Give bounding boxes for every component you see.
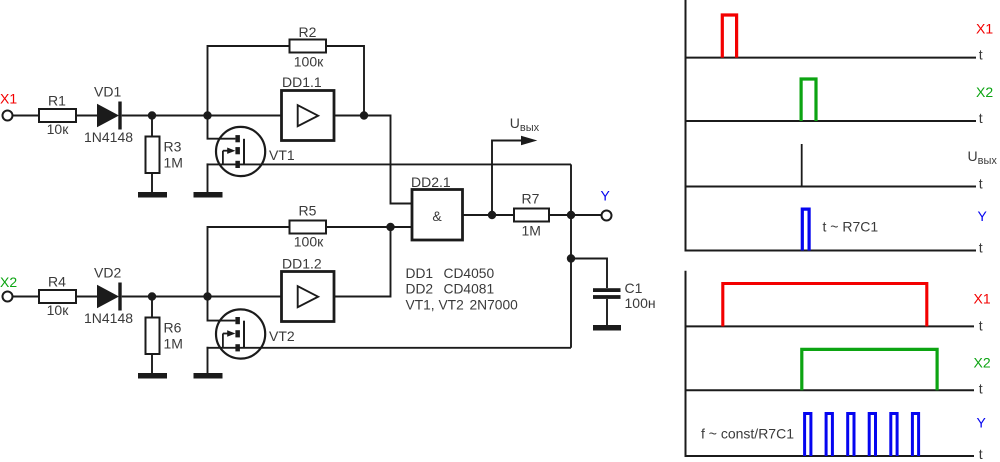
trace Y baseline bbox=[685, 250, 977, 252]
ground bbox=[194, 373, 223, 379]
svg-text:Y: Y bbox=[978, 208, 988, 224]
svg-text:Y: Y bbox=[977, 414, 987, 430]
trace X1 baseline (2) bbox=[685, 325, 975, 327]
svg-text:t ~ R7C1: t ~ R7C1 bbox=[823, 219, 879, 235]
wire (VT1 source to ground) bbox=[207, 163, 209, 192]
svg-text:100н: 100н bbox=[625, 295, 656, 311]
resistor R7 bbox=[514, 191, 549, 239]
svg-text:R7: R7 bbox=[522, 191, 540, 207]
wire bbox=[463, 214, 515, 216]
svg-text:X1: X1 bbox=[0, 90, 17, 106]
Uvyh spike bbox=[801, 144, 803, 187]
wire bbox=[13, 115, 40, 117]
ground bbox=[593, 325, 621, 331]
wire bbox=[334, 116, 412, 204]
svg-text:R1: R1 bbox=[48, 93, 66, 109]
X2 pulse (green, long) bbox=[802, 349, 937, 390]
svg-text:R3: R3 bbox=[164, 139, 182, 155]
trace X2 baseline (2) bbox=[685, 389, 975, 391]
svg-text:1N4148: 1N4148 bbox=[84, 129, 133, 145]
svg-text:C1: C1 bbox=[625, 280, 643, 296]
svg-text:1M: 1M bbox=[522, 223, 541, 239]
svg-text:1M: 1M bbox=[164, 336, 183, 352]
X1 pulse (red, long) bbox=[723, 284, 927, 327]
ground bbox=[194, 192, 223, 198]
svg-text:t: t bbox=[979, 317, 983, 333]
diode VD1 bbox=[84, 84, 133, 146]
junction node bbox=[567, 254, 575, 262]
svg-text:X2: X2 bbox=[974, 355, 991, 371]
svg-text:X2: X2 bbox=[0, 274, 17, 290]
svg-text:1M: 1M bbox=[164, 155, 183, 171]
svg-text:VT1: VT1 bbox=[269, 147, 295, 163]
wire bbox=[571, 259, 607, 289]
axis (top timing diagram) bbox=[685, 0, 687, 251]
svg-text:&: & bbox=[432, 208, 442, 224]
svg-text:10к: 10к bbox=[47, 302, 70, 318]
buffer DD1.2 bbox=[282, 256, 335, 322]
resistor R1 bbox=[39, 93, 76, 138]
buffer DD1.1 bbox=[282, 74, 335, 141]
capacitor C1 bbox=[593, 280, 656, 325]
ground bbox=[138, 373, 167, 379]
svg-text:t: t bbox=[979, 47, 983, 63]
wire bbox=[76, 115, 97, 117]
svg-text:VT2: VT2 bbox=[269, 328, 295, 344]
wire bbox=[13, 296, 40, 298]
junction node bbox=[567, 211, 575, 219]
svg-text:VD2: VD2 bbox=[94, 265, 121, 281]
X1 pulse (red) bbox=[722, 15, 736, 58]
svg-text:100к: 100к bbox=[294, 234, 324, 250]
svg-text:1N4148: 1N4148 bbox=[84, 310, 133, 326]
wire bbox=[208, 227, 290, 297]
junction node bbox=[203, 111, 211, 119]
resistor R4 bbox=[39, 274, 76, 319]
trace X1 baseline bbox=[685, 57, 977, 59]
Y pulse (blue) bbox=[802, 209, 809, 250]
ground bbox=[138, 192, 167, 198]
svg-text:X1: X1 bbox=[974, 290, 991, 306]
junction node bbox=[148, 111, 156, 119]
wire (drain rail top) bbox=[207, 163, 572, 165]
junction node bbox=[148, 292, 156, 300]
resistor R6 bbox=[146, 297, 183, 374]
X2 pulse (green) bbox=[801, 79, 816, 121]
svg-text:R4: R4 bbox=[48, 274, 66, 290]
input terminal X2 bbox=[3, 292, 13, 302]
wire bbox=[334, 227, 391, 297]
MOSFET VT1 bbox=[208, 116, 295, 177]
svg-text:t: t bbox=[979, 240, 983, 256]
wire (drain rail bottom) bbox=[207, 347, 572, 349]
MOSFET VT2 bbox=[208, 297, 295, 359]
svg-text:DD1CD4050: DD1CD4050 bbox=[406, 266, 495, 281]
AND gate DD2.1 bbox=[411, 174, 463, 240]
svg-text:t: t bbox=[979, 110, 983, 126]
trace X2 baseline bbox=[685, 120, 977, 122]
Y pulse train (blue) bbox=[805, 414, 919, 457]
Uvyh arrow bbox=[492, 115, 540, 215]
axis (bottom timing diagram) bbox=[685, 271, 687, 457]
wire bbox=[122, 115, 282, 117]
svg-text:t: t bbox=[979, 446, 983, 462]
svg-text:t: t bbox=[979, 176, 983, 192]
trace Y baseline (2) bbox=[685, 455, 975, 457]
wire (VT2 source to ground) bbox=[207, 347, 209, 373]
svg-text:f ~ const/R7C1: f ~ const/R7C1 bbox=[701, 425, 794, 441]
svg-text:X1: X1 bbox=[976, 21, 993, 37]
svg-text:DD2CD4081: DD2CD4081 bbox=[406, 281, 495, 296]
junction node bbox=[386, 223, 394, 231]
svg-text:Y: Y bbox=[601, 188, 611, 204]
svg-text:R6: R6 bbox=[164, 320, 182, 336]
svg-text:DD2.1: DD2.1 bbox=[411, 174, 451, 190]
svg-text:R5: R5 bbox=[299, 203, 317, 219]
svg-text:VD1: VD1 bbox=[94, 84, 121, 100]
wire bbox=[326, 46, 364, 116]
svg-text:10к: 10к bbox=[47, 121, 70, 137]
svg-text:X2: X2 bbox=[976, 84, 993, 100]
trace Uvyh baseline bbox=[685, 186, 977, 188]
svg-text:DD1.1: DD1.1 bbox=[282, 74, 322, 90]
resistor R5 bbox=[290, 203, 327, 250]
wire bbox=[549, 214, 602, 216]
resistor R3 bbox=[146, 116, 183, 193]
junction node bbox=[488, 211, 496, 219]
resistor R2 bbox=[290, 24, 327, 70]
svg-text:100к: 100к bbox=[294, 54, 324, 70]
svg-text:DD1.2: DD1.2 bbox=[282, 256, 322, 272]
output terminal Y bbox=[602, 211, 612, 221]
junction node bbox=[360, 111, 368, 119]
wire bbox=[326, 226, 391, 228]
parts list text bbox=[406, 266, 519, 313]
svg-text:R2: R2 bbox=[299, 24, 317, 40]
svg-text:VT1, VT22N7000: VT1, VT22N7000 bbox=[406, 298, 519, 313]
wire (drain rail vertical) bbox=[570, 164, 572, 347]
wire bbox=[122, 296, 282, 298]
wire bbox=[76, 296, 97, 298]
wire bbox=[391, 226, 413, 228]
svg-text:t: t bbox=[979, 380, 983, 396]
diode VD2 bbox=[84, 265, 133, 327]
wire bbox=[208, 46, 290, 116]
input terminal X1 bbox=[3, 111, 13, 121]
junction node bbox=[203, 292, 211, 300]
